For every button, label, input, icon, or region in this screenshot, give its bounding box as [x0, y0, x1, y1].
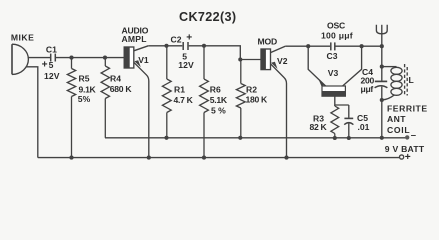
resistor R2 [236, 60, 245, 138]
junction C5 bottom [347, 136, 351, 140]
wire C1 to V1 base [56, 57, 124, 59]
V1 collector lead [134, 46, 148, 51]
svg-text:COIL: COIL [387, 125, 410, 135]
svg-text:FERRITE: FERRITE [387, 104, 428, 114]
node R1 top [164, 44, 168, 48]
svg-text:MIKE: MIKE [11, 33, 34, 43]
svg-text:5.1K: 5.1K [210, 95, 228, 105]
negative supply bus [105, 137, 405, 139]
svg-text:R6: R6 [210, 85, 221, 95]
svg-text:R1: R1 [174, 85, 185, 95]
battery negative terminal [405, 135, 409, 139]
transistor V3 bar [322, 86, 345, 96]
node R6 top [202, 44, 206, 48]
junction R2 bottom [238, 136, 242, 140]
svg-text:C1: C1 [46, 45, 57, 55]
wire mike ground lead [26, 67, 38, 158]
svg-text:OSC: OSC [327, 20, 345, 30]
V2 emitter lead with arrow [271, 64, 287, 158]
svg-text:V2: V2 [277, 56, 288, 66]
svg-text:L: L [409, 75, 414, 85]
V3 collector leg [343, 46, 362, 86]
wire tank top [382, 66, 397, 68]
microphone MIKE [12, 44, 28, 74]
svg-text:82 K: 82 K [310, 122, 328, 132]
transistor V1 audio ampl [124, 47, 134, 68]
resistor R1 [162, 46, 171, 138]
transistor V2 modulator [261, 49, 271, 70]
inductor L coil [382, 67, 402, 100]
node V3 emitter branch [306, 44, 310, 48]
svg-text:12V: 12V [44, 71, 60, 81]
svg-text:R4: R4 [110, 73, 121, 83]
wire tank bottom to bus [381, 100, 383, 138]
resistor R4 [101, 58, 109, 138]
node R2 top [238, 57, 242, 61]
svg-text:C2: C2 [171, 34, 182, 44]
capacitor C2 [183, 42, 188, 50]
svg-text:+: + [186, 32, 192, 43]
wire C3 to antenna node [336, 45, 382, 47]
V3 emitter leg with arrow [308, 46, 325, 86]
svg-text:100 μμf: 100 μμf [321, 31, 353, 41]
svg-text:180 K: 180 K [246, 94, 269, 104]
svg-text:AMPL: AMPL [122, 34, 147, 44]
battery positive terminal [400, 155, 404, 159]
V2 collector lead [271, 46, 286, 52]
svg-text:5%: 5% [78, 94, 91, 104]
node tank bottom [380, 98, 384, 102]
resistor R5 [67, 58, 75, 158]
junction tank bottom bus [380, 136, 384, 140]
capacitor C4 [375, 67, 388, 100]
capacitor C5 [344, 105, 353, 138]
junction R1 bottom [164, 136, 168, 140]
svg-text:μμf: μμf [361, 84, 374, 94]
svg-text:9 V BATT: 9 V BATT [385, 144, 425, 154]
node antenna / tank top [380, 44, 384, 48]
wire V1 collector to C2 [148, 45, 182, 47]
positive supply bus [38, 157, 399, 159]
svg-text:–: – [411, 130, 416, 141]
wire mike to C1 [28, 57, 50, 59]
svg-text:ANT: ANT [387, 114, 406, 124]
svg-text:CK722(3): CK722(3) [179, 10, 236, 24]
svg-text:5: 5 [49, 60, 54, 70]
junction V1 emitter bus [147, 156, 151, 160]
junction R3 bottom [333, 136, 337, 140]
wire V2 collector to C3 [285, 45, 330, 47]
V3 base lead [335, 96, 349, 105]
resistor R6 [200, 46, 209, 158]
junction R5 bottom [69, 156, 73, 160]
node R5 top [69, 56, 73, 60]
wire C2 to V2 base corner [189, 46, 261, 60]
svg-text:12V: 12V [178, 60, 194, 70]
svg-text:V1: V1 [138, 55, 149, 65]
resistor R3 [331, 105, 339, 138]
svg-text:R2: R2 [246, 85, 257, 95]
ferrite core dashes [405, 64, 408, 96]
capacitor C3 [331, 42, 335, 50]
junction V2 emitter bus [284, 156, 288, 160]
node R4 top [103, 56, 107, 60]
svg-text:V3: V3 [328, 68, 339, 78]
svg-text:+: + [42, 60, 48, 71]
node V3 collector branch [360, 44, 364, 48]
V1 emitter lead with arrow [134, 62, 149, 157]
antenna [376, 25, 387, 67]
capacitor C1 [51, 54, 56, 62]
svg-text:MOD: MOD [258, 36, 277, 46]
svg-text:.01: .01 [358, 122, 370, 132]
svg-text:R5: R5 [79, 73, 90, 83]
svg-text:C3: C3 [327, 51, 338, 61]
svg-text:4.7 K: 4.7 K [174, 95, 194, 105]
svg-text:9.1K: 9.1K [79, 84, 97, 94]
svg-text:680 K: 680 K [110, 84, 133, 94]
junction R6 bottom [202, 156, 206, 160]
svg-text:5 %: 5 % [211, 105, 226, 115]
